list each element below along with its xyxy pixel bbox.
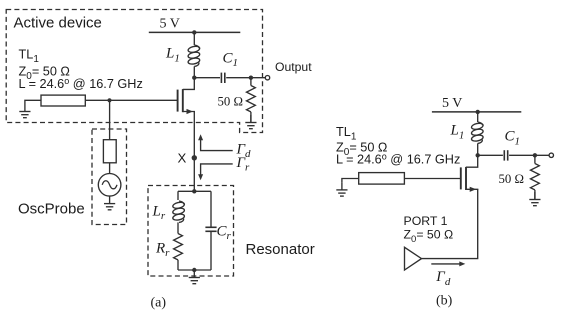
- wire junction down to OscProbe resistor: [109, 100, 111, 139]
- wire resonator top rail: [178, 190, 211, 192]
- OscProbe source resistor body: [103, 140, 116, 163]
- svg-text:5 V: 5 V: [160, 17, 180, 32]
- AC source (OscProbe sine generator): [98, 174, 121, 197]
- svg-text:OscProbe: OscProbe: [18, 201, 85, 218]
- wire rail to L1: [193, 32, 195, 45]
- wire source down to node X: [193, 112, 195, 192]
- transistor Q2 (MESFET, circuit b): [460, 167, 462, 189]
- svg-text:Active device: Active device: [14, 15, 102, 32]
- wire resonator bottom rail: [178, 269, 211, 271]
- wire L1 to drain node (b): [477, 143, 479, 155]
- inductor L1 (circuit b): [471, 122, 484, 143]
- svg-text:C1: C1: [223, 51, 239, 70]
- wire source down to port (b): [422, 189, 478, 258]
- wire drain node to C1: [194, 77, 220, 79]
- OscProbe dashed enclosure: [92, 129, 127, 225]
- svg-text:Lr: Lr: [152, 204, 166, 223]
- resistor 50 ohm (circuit b): [531, 164, 540, 190]
- wire node to 50 ohm resistor (b): [534, 155, 536, 163]
- svg-text:PORT 1: PORT 1: [404, 214, 448, 228]
- node junction (resonator top): [192, 189, 196, 193]
- wire C1 to output (b): [509, 154, 549, 156]
- node junction (resonator bottom): [192, 268, 196, 272]
- gamma-d arrow (right, circuit b): [431, 263, 460, 265]
- svg-text:Resonator: Resonator: [246, 241, 315, 258]
- wire node to 50 ohm resistor: [250, 78, 252, 86]
- svg-text:5 V: 5 V: [442, 96, 462, 111]
- wire Lr to Rr: [177, 222, 179, 233]
- capacitor C1 (circuit b): [503, 150, 505, 160]
- gamma-d arrow (up, circuit a): [201, 139, 233, 151]
- node junction (drain / C1): [192, 76, 196, 80]
- output terminal circle: [265, 76, 269, 80]
- ground (input of TL1, circuit a): [19, 104, 30, 118]
- node X junction dot: [192, 155, 197, 160]
- Resonator dashed enclosure: [148, 186, 234, 277]
- output terminal circle (b): [549, 153, 553, 157]
- Active device dashed enclosure: [6, 10, 262, 133]
- 5 V supply rail (circuit b): [432, 111, 521, 113]
- wire resistor to ground (b): [534, 190, 536, 199]
- 5 V supply rail (circuit a): [149, 31, 241, 33]
- svg-text:L = 24.6o @ 16.7 GHz: L = 24.6o @ 16.7 GHz: [336, 152, 460, 167]
- node junction (gate wire / OscProbe tap): [107, 98, 111, 102]
- node junction (rail / L1): [192, 30, 196, 34]
- svg-text:C1: C1: [505, 129, 521, 148]
- wire top to Lr: [177, 191, 179, 200]
- svg-text:50 Ω: 50 Ω: [499, 172, 525, 186]
- wire top to Cr: [210, 191, 212, 227]
- wire rail to L1 (b): [477, 112, 479, 122]
- wire ground to TL1: [25, 100, 41, 104]
- node junction (output / 50 ohm load): [249, 76, 253, 80]
- svg-text:50 Ω: 50 Ω: [218, 94, 244, 108]
- ground (50 ohm, circuit b): [529, 192, 540, 206]
- wire L1 to drain node: [193, 66, 195, 77]
- wire Rr to bottom rail: [177, 260, 179, 270]
- ground (input of TL1, circuit b): [336, 182, 347, 196]
- node junction (rail / L1, circuit b): [476, 110, 480, 114]
- wire drain node to C1 (b): [478, 154, 503, 156]
- ground (resonator): [189, 270, 200, 284]
- wire resistor to ground: [250, 112, 252, 122]
- svg-text:Rr: Rr: [155, 241, 170, 260]
- svg-text:(b): (b): [436, 294, 453, 309]
- ground (OscProbe): [104, 196, 115, 210]
- svg-text:X: X: [178, 150, 187, 165]
- inductor L1 (circuit a): [188, 45, 201, 66]
- wire TL1 to gate of Q1: [85, 99, 177, 101]
- ground (50 ohm load, circuit a): [245, 115, 256, 129]
- svg-text:L = 24.6o @ 16.7 GHz: L = 24.6o @ 16.7 GHz: [19, 76, 143, 91]
- wire ground to TL1 (b): [342, 179, 359, 183]
- svg-text:Z0= 50 Ω: Z0= 50 Ω: [404, 228, 454, 245]
- transmission line TL1 (rectangle body, circuit b): [359, 173, 405, 185]
- svg-text:TL1: TL1: [19, 48, 40, 66]
- svg-text:L1: L1: [450, 123, 465, 142]
- capacitor C1 (circuit a): [220, 73, 222, 83]
- svg-text:Output: Output: [275, 60, 312, 74]
- transmission line TL1 (rectangle body, circuit a): [41, 95, 85, 106]
- inductor Lr: [172, 201, 185, 222]
- wire TL1 to gate of Q2: [404, 178, 460, 180]
- svg-text:Γd: Γd: [435, 269, 451, 288]
- node junction (output / 50 ohm, circuit b): [533, 153, 537, 157]
- node junction (drain / C1, circuit b): [476, 153, 480, 157]
- svg-text:L1: L1: [165, 46, 180, 65]
- port PORT1 triangle symbol: [405, 247, 422, 270]
- gamma-r arrow (down, circuit a): [201, 164, 233, 176]
- wire Cr to bottom rail: [210, 231, 212, 270]
- resistor Rr: [174, 234, 183, 260]
- wire C1 to output: [226, 77, 265, 79]
- svg-text:(a): (a): [151, 296, 167, 311]
- capacitor Cr: [205, 226, 216, 228]
- transistor Q1 (MESFET, circuit a): [177, 90, 179, 112]
- resistor 50 ohm (load, circuit a): [246, 86, 255, 112]
- wire resistor to AC source: [109, 163, 111, 174]
- svg-text:Cr: Cr: [217, 223, 232, 242]
